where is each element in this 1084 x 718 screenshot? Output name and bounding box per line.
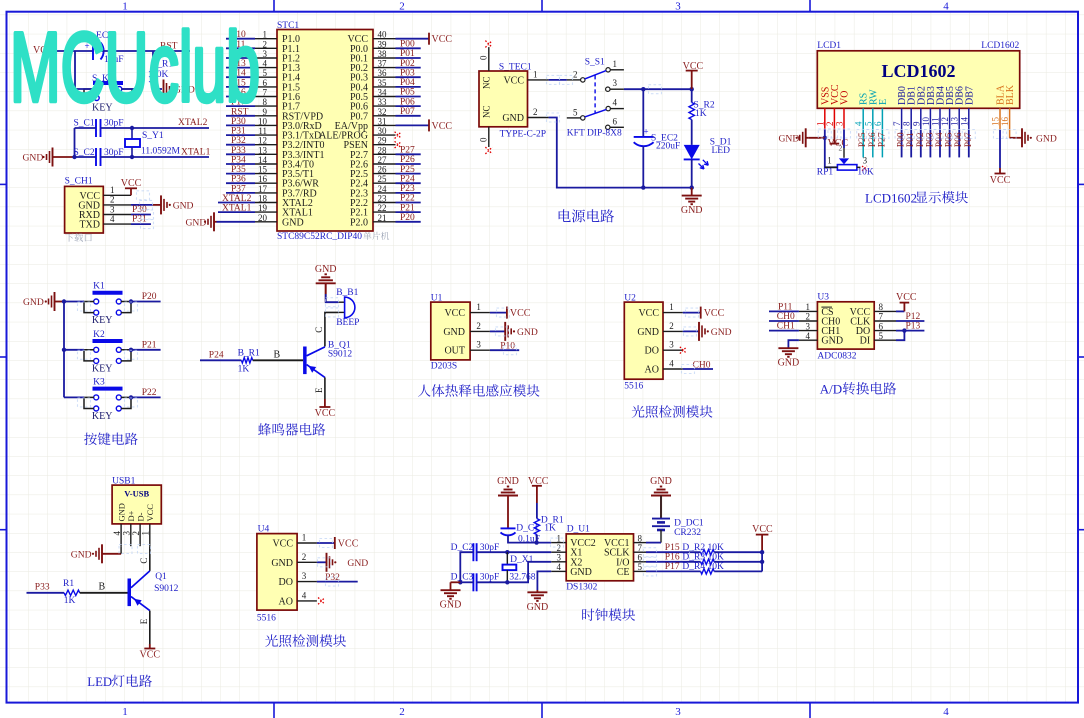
svg-text:5: 5 — [863, 121, 873, 126]
transistor Q1 S9012 — [128, 579, 132, 607]
svg-text:LCD1602: LCD1602 — [865, 190, 917, 205]
svg-text:GND: GND — [517, 327, 538, 338]
svg-text:5: 5 — [638, 562, 643, 572]
svg-text:P37: P37 — [231, 184, 246, 194]
wire — [824, 129, 826, 137]
wire net P17 — [226, 105, 255, 107]
svg-text:NC: NC — [482, 76, 492, 89]
wire — [769, 320, 799, 322]
svg-text:P12: P12 — [906, 312, 921, 322]
svg-text:33: 33 — [378, 97, 388, 107]
svg-text:4: 4 — [943, 1, 949, 13]
wire net P13 — [226, 67, 255, 69]
ground (S_CH1 pin2) — [153, 204, 161, 206]
wire — [131, 349, 161, 351]
caption key circuit — [84, 433, 97, 446]
power VCC (buzzer) — [324, 399, 326, 407]
wire — [761, 552, 763, 571]
wire net P24 — [396, 182, 421, 184]
node — [641, 185, 645, 189]
pin 21 P2.0 — [373, 221, 396, 223]
wire net P01 — [396, 57, 421, 59]
svg-text:1: 1 — [827, 155, 832, 165]
pin 14 — [968, 108, 970, 129]
svg-text:P01: P01 — [400, 49, 415, 59]
svg-text:B: B — [99, 582, 106, 593]
wire — [537, 571, 551, 590]
node — [690, 185, 694, 189]
wire — [460, 552, 473, 582]
svg-text:13: 13 — [258, 145, 268, 155]
svg-text:19: 19 — [258, 203, 268, 213]
ground (clock left) — [450, 582, 452, 590]
svg-text:GND: GND — [440, 600, 462, 611]
pin 10 — [929, 108, 931, 129]
pin 25 P2.4 — [373, 182, 396, 184]
svg-text:GND: GND — [443, 327, 465, 338]
svg-text:18: 18 — [258, 194, 268, 204]
svg-text:GND: GND — [502, 113, 524, 124]
wire net P25 — [862, 129, 864, 157]
pin 8 — [910, 108, 912, 129]
svg-text:P20: P20 — [400, 213, 415, 223]
svg-text:11: 11 — [258, 126, 267, 136]
no-connect U4 AO — [318, 598, 325, 605]
pin 3 — [297, 581, 317, 583]
svg-text:P00: P00 — [897, 132, 907, 147]
pin 1 VCC2 — [551, 542, 566, 544]
svg-text:GND: GND — [570, 567, 592, 578]
wire — [549, 118, 644, 188]
caption PIR module — [418, 385, 431, 397]
svg-text:7: 7 — [638, 543, 643, 553]
pin 7 SCLK — [634, 551, 647, 553]
buzzer B_B1 BEEP — [339, 301, 345, 303]
pin 2 CH0 — [799, 320, 818, 322]
svg-text:BEEP: BEEP — [336, 318, 359, 328]
svg-text:KEY: KEY — [92, 363, 113, 374]
svg-text:P23: P23 — [400, 184, 415, 194]
wire — [63, 302, 65, 398]
svg-text:P33: P33 — [35, 583, 50, 593]
pin 5 P1.4 — [255, 76, 277, 78]
wire net P22 — [396, 202, 421, 204]
svg-text:1K: 1K — [544, 524, 556, 534]
svg-text:GND: GND — [315, 264, 337, 275]
ground (U4) — [326, 553, 328, 572]
wire net P23 — [396, 192, 421, 194]
svg-text:GND: GND — [681, 205, 703, 216]
svg-text:P21: P21 — [142, 341, 157, 351]
pin 11 P3.1/TxD — [255, 134, 277, 136]
svg-text:3: 3 — [476, 340, 481, 350]
svg-text:STC89C52RC_DIP40: STC89C52RC_DIP40 — [277, 232, 362, 242]
svg-text:VCC: VCC — [503, 75, 524, 86]
pin 31 EA/Vpp — [373, 124, 396, 126]
svg-text:XTAL1: XTAL1 — [222, 204, 252, 214]
wire — [75, 88, 95, 90]
svg-text:P06: P06 — [400, 97, 415, 107]
pin 29 PSEN — [373, 144, 396, 146]
svg-text:BLK: BLK — [1005, 84, 1016, 105]
svg-text:15: 15 — [258, 165, 268, 175]
wire — [460, 581, 473, 583]
pin 3 — [663, 349, 683, 351]
svg-text:1: 1 — [110, 185, 115, 195]
svg-text:LCD1602: LCD1602 — [881, 61, 955, 81]
wire — [683, 312, 701, 314]
node — [505, 550, 509, 554]
caption MCU — [363, 232, 371, 240]
pin 7 CLK — [874, 320, 896, 322]
wire net P06 — [396, 105, 421, 107]
svg-text:GND: GND — [779, 133, 800, 144]
svg-text:P17: P17 — [665, 562, 680, 572]
pin 30 ALE/PROG — [373, 134, 396, 136]
wire net P05 — [949, 129, 951, 157]
svg-text:GND: GND — [271, 558, 293, 569]
svg-text:E: E — [314, 387, 324, 393]
resistor S_R2 1K — [691, 89, 693, 102]
pin 27 P2.6 — [373, 163, 396, 165]
svg-text:S_S1: S_S1 — [585, 58, 605, 68]
svg-text:P21: P21 — [400, 203, 415, 213]
ground (battery) — [660, 496, 662, 519]
svg-text:16: 16 — [258, 174, 268, 184]
svg-text:GND: GND — [821, 336, 843, 347]
wire — [149, 546, 151, 571]
power VCC (U2) — [700, 307, 702, 319]
svg-text:VCC: VCC — [444, 308, 465, 319]
wire net P16 — [226, 96, 255, 98]
svg-text:5516: 5516 — [624, 382, 643, 392]
svg-text:Q1: Q1 — [155, 572, 167, 582]
svg-text:1: 1 — [302, 533, 307, 543]
svg-text:2: 2 — [839, 144, 843, 153]
crystal D_X1 32.768 — [506, 552, 508, 564]
wire — [149, 611, 151, 644]
svg-text:P32: P32 — [325, 573, 340, 583]
svg-text:7: 7 — [879, 312, 884, 322]
svg-text:2: 2 — [302, 552, 307, 562]
pin 16 P3.6/WR — [255, 182, 277, 184]
node — [690, 87, 694, 91]
svg-text:2: 2 — [557, 543, 562, 553]
svg-text:GND: GND — [650, 476, 672, 487]
svg-text:VCC: VCC — [752, 524, 773, 535]
svg-text:E: E — [139, 618, 149, 624]
pin 39 P0.0 — [373, 47, 396, 49]
svg-text:8: 8 — [902, 121, 912, 126]
caption power circuit — [559, 209, 571, 222]
wire — [122, 88, 142, 90]
svg-text:P24: P24 — [209, 351, 224, 361]
svg-text:R1: R1 — [63, 579, 74, 589]
pin 2 — [663, 330, 683, 332]
svg-text:P20: P20 — [142, 292, 157, 302]
svg-text:4: 4 — [263, 59, 268, 69]
caption clock module — [582, 609, 594, 621]
wire — [490, 330, 505, 332]
svg-text:V-USB: V-USB — [124, 489, 149, 499]
wire net P30 — [226, 124, 255, 126]
wire net XTAL1 — [218, 211, 255, 213]
wire — [451, 581, 461, 583]
svg-text:P06: P06 — [954, 132, 964, 147]
pin 4 — [663, 368, 683, 370]
pin 3 X2 — [551, 561, 566, 563]
wire — [477, 581, 508, 583]
power VCC (STC pin40) — [428, 33, 430, 45]
svg-text:C: C — [314, 327, 324, 333]
node — [823, 136, 827, 140]
node — [72, 155, 76, 159]
svg-text:VCC: VCC — [121, 178, 142, 189]
wire net P15 — [646, 551, 701, 553]
svg-text:37: 37 — [378, 59, 388, 69]
svg-text:P2.0: P2.0 — [350, 217, 368, 228]
svg-text:GND: GND — [71, 549, 92, 560]
wire — [324, 377, 326, 399]
pin 4 — [120, 524, 122, 546]
wire — [317, 561, 327, 563]
svg-text:28: 28 — [378, 145, 388, 155]
svg-text:2: 2 — [573, 69, 578, 79]
wire net P07 — [968, 129, 970, 157]
svg-text:VCC: VCC — [145, 504, 155, 522]
svg-text:P22: P22 — [142, 388, 157, 398]
svg-text:GND: GND — [347, 558, 368, 569]
LED S_D1 — [684, 145, 700, 160]
wire net P12 — [226, 57, 255, 59]
wire — [101, 156, 133, 158]
svg-text:2: 2 — [533, 107, 538, 117]
wire — [646, 542, 661, 544]
svg-text:3: 3 — [613, 78, 618, 88]
pin 6 P1.5 — [255, 86, 277, 88]
wire — [769, 330, 799, 332]
svg-text:3: 3 — [835, 121, 845, 126]
svg-text:VCC: VCC — [432, 121, 453, 132]
svg-text:5: 5 — [573, 107, 578, 117]
wire — [64, 301, 84, 303]
node XTAL2 junction — [130, 126, 134, 130]
svg-text:4: 4 — [110, 214, 115, 224]
node — [902, 328, 906, 332]
pin 4 — [297, 600, 317, 602]
svg-text:6: 6 — [873, 121, 883, 126]
svg-text:6: 6 — [263, 78, 268, 88]
node — [534, 540, 538, 544]
wire net P15 — [226, 86, 255, 88]
wire net P03 — [929, 129, 931, 157]
wire — [999, 129, 1001, 168]
node RST junction — [139, 49, 143, 53]
svg-text:14: 14 — [258, 155, 268, 165]
svg-text:4: 4 — [613, 98, 618, 108]
pin 7 P1.6 — [255, 96, 277, 98]
capacitor S_EC1 10uF — [92, 42, 94, 60]
pin 8 VCC1 — [634, 542, 647, 544]
svg-text:VCC: VCC — [315, 408, 336, 419]
wire net P37 — [226, 192, 255, 194]
svg-text:1K: 1K — [695, 109, 707, 119]
svg-text:6: 6 — [638, 553, 643, 563]
pin 17 P3.7/RD — [255, 192, 277, 194]
pin 13 — [958, 108, 960, 129]
pin 1 CS — [799, 310, 818, 312]
node — [505, 580, 509, 584]
power VCC (U4) — [334, 537, 336, 549]
svg-text:P04: P04 — [935, 132, 945, 147]
svg-text:1: 1 — [263, 30, 268, 40]
svg-text:S_Y1: S_Y1 — [142, 131, 164, 141]
pin 0 bottom NC — [488, 127, 490, 147]
svg-text:29: 29 — [378, 136, 388, 146]
svg-text:2: 2 — [399, 1, 405, 13]
wire net P34 — [226, 163, 255, 165]
pin 4 — [103, 223, 131, 225]
pin 33 P0.6 — [373, 105, 396, 107]
node — [760, 550, 764, 554]
svg-text:1: 1 — [141, 531, 151, 536]
wire — [132, 156, 209, 158]
wire net P06 — [958, 129, 960, 157]
svg-text:MCUclub: MCUclub — [10, 12, 260, 122]
svg-text:OUT: OUT — [444, 346, 465, 357]
wire — [1009, 129, 1011, 137]
svg-text:2: 2 — [669, 321, 674, 331]
svg-text:5: 5 — [879, 331, 884, 341]
wire net P02 — [396, 67, 421, 69]
svg-text:4: 4 — [669, 359, 674, 369]
pin 26 P2.5 — [373, 173, 396, 175]
wire — [490, 312, 507, 314]
svg-text:9: 9 — [911, 121, 921, 126]
svg-text:3: 3 — [110, 204, 115, 214]
pin 34 P0.5 — [373, 96, 396, 98]
no-connect — [862, 166, 867, 171]
svg-text:36: 36 — [378, 68, 388, 78]
caption download port — [65, 233, 74, 241]
svg-text:P32: P32 — [231, 136, 246, 146]
svg-text:3: 3 — [669, 340, 674, 350]
svg-text:1: 1 — [122, 1, 128, 13]
svg-text:P04: P04 — [400, 78, 415, 88]
power VCC (LED lamp) — [149, 644, 151, 649]
wire — [132, 127, 209, 129]
wire — [131, 223, 151, 225]
wire net P03 — [396, 76, 421, 78]
wire — [788, 340, 799, 348]
svg-text:11: 11 — [931, 117, 941, 126]
svg-text:CH1: CH1 — [777, 322, 795, 332]
no-connect — [485, 41, 492, 48]
pin 6 I/O — [634, 561, 647, 563]
wire — [896, 320, 924, 322]
wire net P35 — [226, 173, 255, 175]
svg-text:DO: DO — [279, 577, 293, 588]
pin 1 — [470, 312, 490, 314]
power VCC (U3) — [903, 303, 905, 312]
svg-text:VCC: VCC — [338, 539, 359, 550]
pin 5 — [872, 108, 874, 129]
svg-text:1: 1 — [122, 706, 128, 718]
svg-text:ADC0832: ADC0832 — [817, 352, 856, 362]
svg-text:9: 9 — [263, 107, 268, 117]
svg-text:CR232: CR232 — [674, 528, 701, 538]
wire net P33 — [226, 153, 255, 155]
pin 2 — [139, 524, 141, 546]
svg-text:35: 35 — [378, 78, 388, 88]
potentiometer RP1 10K — [839, 158, 849, 164]
power VCC (U1) — [506, 307, 508, 319]
svg-text:LED: LED — [87, 675, 112, 689]
wire — [507, 562, 551, 583]
wire — [131, 214, 151, 216]
pin 11 — [939, 108, 941, 129]
svg-text:34: 34 — [378, 88, 388, 98]
pin 22 P2.1 — [373, 211, 396, 213]
ground (LCD BLK) — [1021, 128, 1023, 147]
pin 1 — [297, 542, 317, 544]
svg-text:P00: P00 — [400, 40, 415, 50]
ground (clock chip) — [536, 590, 538, 592]
svg-text:K2: K2 — [93, 330, 105, 340]
pin 3 — [470, 349, 490, 351]
ground (buzzer) — [325, 283, 327, 302]
svg-text:6: 6 — [613, 116, 618, 126]
wire net RST — [226, 115, 255, 117]
power VCC (STC pin31 EA/Vpp) — [428, 119, 430, 131]
wire — [896, 331, 904, 341]
svg-text:TXD: TXD — [79, 220, 100, 231]
svg-text:1: 1 — [533, 69, 538, 79]
svg-text:P35: P35 — [231, 165, 246, 175]
svg-text:XTAL2: XTAL2 — [222, 194, 252, 204]
svg-text:VCC: VCC — [990, 175, 1011, 186]
svg-text:KEY: KEY — [92, 315, 113, 326]
pin 38 P0.1 — [373, 57, 396, 59]
wire — [325, 312, 339, 346]
ground (clock C1) — [507, 496, 509, 528]
svg-text:VCC: VCC — [638, 308, 659, 319]
wire — [200, 359, 241, 361]
wire — [317, 542, 335, 544]
pin 23 P2.2 — [373, 202, 396, 204]
svg-text:1K: 1K — [64, 596, 76, 606]
svg-text:GND: GND — [711, 327, 732, 338]
wire net P01 — [910, 129, 912, 157]
pin 6 DO — [874, 330, 896, 332]
wire — [843, 129, 845, 148]
svg-text:P10: P10 — [500, 342, 515, 352]
svg-text:11.0592M: 11.0592M — [141, 147, 181, 157]
svg-text:GND: GND — [23, 297, 44, 308]
pin 36 P0.3 — [373, 76, 396, 78]
pin 8 P1.7 — [255, 105, 277, 107]
wire — [825, 138, 838, 168]
pin 3 P1.2 — [255, 57, 277, 59]
svg-text:12: 12 — [940, 117, 950, 126]
pin 4 GND — [799, 339, 818, 341]
svg-text:38: 38 — [378, 49, 388, 59]
no-connect pin30 — [395, 132, 402, 139]
svg-text:P33: P33 — [231, 146, 246, 156]
svg-text:1: 1 — [806, 302, 811, 312]
svg-text:P27: P27 — [400, 146, 415, 156]
no-connect — [485, 147, 492, 154]
